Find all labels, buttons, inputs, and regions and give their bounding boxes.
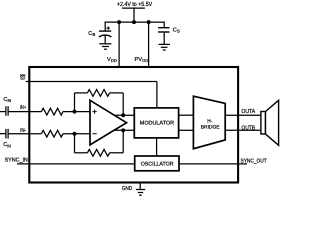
node supply stem [132,20,136,24]
capacitor CB plus sign [106,27,110,29]
svg-text:S: S [177,29,180,34]
node out top feedback tap [121,113,125,117]
wire modulator to H-bridge bottom [179,129,194,131]
wire IN- [8,133,41,135]
wire IN+ to op-amp [63,111,91,113]
wire OUTA [225,114,261,116]
svg-text:IN+: IN+ [20,105,26,111]
svg-text:OUTA: OUTA [241,108,255,115]
block MODULATOR [134,108,178,138]
wire modulator to oscillator [156,138,158,156]
node VDD branch [117,20,121,24]
wire op-amp out bottom [114,129,135,131]
wire GND stub [139,183,141,190]
svg-text:BRIDGE: BRIDGE [201,124,220,130]
capacitor CS [158,27,169,29]
wire SYNC_OUT [179,163,247,165]
wire IN- to op-amp [63,133,91,135]
svg-text:DD: DD [142,58,148,63]
ground GND [136,189,145,191]
svg-text:GND: GND [122,186,132,192]
block OSCILLATOR [135,156,179,171]
ground CB [99,43,111,45]
capacitor CIN bottom [5,129,7,139]
wire OUTB [225,129,261,131]
svg-text:MODULATOR: MODULATOR [140,120,174,126]
wire IN+ left [0,111,6,113]
svg-text:SYNC_OUT: SYNC_OUT [241,159,268,165]
svg-text:OUTB: OUTB [241,124,255,131]
feedback loop top [74,93,76,112]
ground CS [159,43,170,45]
wire SD [26,81,157,83]
IC outline box [29,67,238,183]
node IN- feedback tap [73,132,77,136]
resistor feedback bottom [87,149,109,156]
wire IN- left [0,133,6,135]
svg-text:+2.4V to +5.5V: +2.4V to +5.5V [117,1,152,8]
wire CB to ground [104,35,106,43]
wire op-amp out top [114,114,135,116]
wire supply bus [105,21,165,23]
wire supply stem [133,8,135,22]
block H-BRIDGE [193,96,225,149]
wire CS branch [163,22,165,28]
wire CS to ground [163,32,165,44]
wire IN+ [8,111,41,113]
wire PVDD [148,22,150,67]
speaker [261,112,266,135]
wire modulator to H-bridge top [179,114,194,116]
capacitor CB [99,30,111,32]
capacitor CIN top [5,106,7,116]
feedback loop bottom [74,134,76,153]
pin label SD (active low) [20,74,26,76]
resistor feedback top [87,90,109,97]
resistor input IN+ [41,108,63,115]
wire SYNC_IN [17,163,135,165]
svg-text:OSCILLATOR: OSCILLATOR [141,161,174,167]
node IN+ feedback tap [73,110,77,114]
node out bottom feedback tap [121,128,125,132]
svg-text:SYNC_IN: SYNC_IN [5,158,28,164]
wire VDD [118,22,120,67]
svg-text:IN: IN [7,143,11,148]
svg-text:B: B [93,32,96,37]
svg-text:IN: IN [8,98,12,103]
resistor input IN- [41,130,63,137]
node PVDD branch [147,20,151,24]
wire CB branch [104,22,106,32]
svg-text:PV: PV [135,57,143,63]
supply rail bar [122,7,145,9]
svg-text:SD: SD [20,76,25,82]
svg-text:DD: DD [111,58,117,63]
op-amp U1 [90,100,127,145]
